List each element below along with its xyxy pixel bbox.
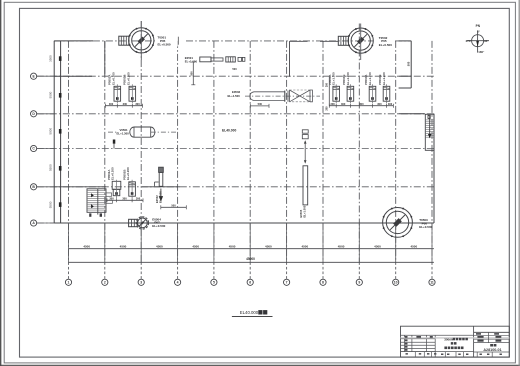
row D bubble leader	[37, 113, 54, 115]
svg-text:E0505: E0505	[299, 209, 303, 217]
northeast annex east wall	[410, 41, 412, 88]
svg-text:500: 500	[258, 102, 263, 106]
row A bubble leader	[37, 222, 54, 224]
west wall inner face	[60, 41, 62, 223]
grid column 5 bubble leader	[213, 262, 215, 279]
dimension extension line	[140, 223, 142, 262]
row D wall right segment	[399, 113, 425, 115]
svg-text:EL+1.300: EL+1.300	[117, 132, 130, 136]
svg-text:EL+1.200: EL+1.200	[382, 72, 386, 85]
dimension extension line	[249, 223, 251, 262]
staircase right (axis 11 / rows D-C)	[425, 114, 434, 150]
mid pump pair dimension line	[107, 199, 143, 201]
north equipment axis line (left)	[54, 40, 155, 42]
E0502 dimension line	[161, 206, 187, 208]
column 2 wall segment	[104, 41, 106, 76]
svg-text:5500: 5500	[49, 201, 53, 208]
conveyor E0501	[200, 57, 211, 62]
fan T0503 (axis 10 / row A)	[383, 208, 413, 238]
svg-text:EL40.000: EL40.000	[222, 129, 236, 133]
axis bubble E	[30, 73, 36, 79]
svg-text:PN: PN	[476, 24, 481, 28]
fan T0502 vertical centerline	[360, 24, 362, 61]
equipment E0502	[159, 167, 164, 172]
fan T0501 label underlay	[156, 35, 178, 46]
svg-text:7: 7	[286, 281, 288, 285]
svg-text:8: 8	[322, 281, 324, 285]
svg-text:EL+0.500: EL+0.500	[152, 224, 165, 228]
grid column 4 centerline	[177, 41, 179, 262]
grid row B centerline	[37, 186, 434, 188]
svg-text:EL+1.200: EL+1.200	[332, 72, 336, 85]
structural column on west wall	[59, 93, 62, 98]
row B wall left segment	[54, 186, 106, 188]
axis bubble 6	[247, 279, 253, 285]
grid column 8 bubble leader	[322, 262, 324, 279]
svg-text:300: 300	[359, 102, 364, 106]
north equipment axis line (right)	[395, 40, 411, 42]
E0503 centerline	[245, 95, 320, 97]
row E wall right segment	[399, 75, 412, 77]
svg-text:EL+0.200: EL+0.200	[126, 167, 130, 180]
pump pair dimension line	[105, 105, 142, 107]
grid column 10 bubble leader	[395, 262, 397, 279]
svg-text:E0502: E0502	[155, 195, 159, 203]
svg-text:EL+0.500: EL+0.500	[158, 43, 171, 47]
svg-text:3500: 3500	[49, 55, 53, 62]
grid column 6 bubble leader	[249, 262, 251, 279]
svg-text:3: 3	[140, 281, 142, 285]
axis bubble 9	[356, 279, 362, 285]
west wall outer face	[53, 41, 55, 223]
north wall right segment	[399, 40, 412, 42]
svg-text:5500: 5500	[49, 164, 53, 171]
V0501 centerline right	[151, 131, 176, 133]
svg-text:300: 300	[123, 102, 128, 106]
axis bubble C	[30, 145, 36, 151]
svg-text:4500: 4500	[156, 245, 163, 249]
pump P0503A	[333, 86, 340, 101]
dimension extension line	[177, 223, 179, 262]
axis bubble B	[30, 184, 36, 190]
svg-text:200: 200	[326, 82, 329, 87]
east wall	[433, 114, 435, 223]
pump P0503B	[347, 86, 354, 101]
tick on north axis	[177, 37, 179, 45]
svg-text:9: 9	[358, 281, 360, 285]
north equipment axis line (middle)	[186, 40, 373, 42]
grid row D centerline	[37, 113, 434, 115]
dimension extension line	[104, 223, 106, 262]
svg-text:500: 500	[407, 61, 411, 66]
svg-text:4500: 4500	[192, 245, 199, 249]
svg-text:EL+1.000: EL+1.000	[185, 59, 198, 63]
pump room west wall at axis 7	[289, 41, 291, 77]
structural column on west wall	[59, 166, 62, 171]
svg-text:300: 300	[388, 102, 393, 106]
svg-text:EL40.000: EL40.000	[240, 310, 259, 315]
grid column 11 centerline	[431, 41, 433, 262]
svg-text:300: 300	[377, 102, 382, 106]
grid column 1 bubble leader	[68, 262, 70, 279]
left stair landing notch upper	[106, 193, 112, 196]
right pump group extension line	[328, 76, 330, 106]
V0501 centerline left	[108, 131, 118, 133]
fan T0502 label underlay	[377, 36, 394, 47]
pump P0501B	[129, 182, 136, 196]
pump P0501A	[112, 181, 121, 189]
dimension extension line	[395, 223, 397, 262]
svg-text:300: 300	[109, 197, 114, 201]
svg-text:45000: 45000	[246, 257, 255, 261]
grid column 6 centerline	[249, 41, 251, 262]
axis bubble 4	[175, 279, 181, 285]
equipment E0503	[250, 92, 285, 101]
duct E0505	[302, 130, 308, 133]
svg-text:4500: 4500	[338, 245, 345, 249]
svg-text:2: 2	[104, 281, 106, 285]
axis bubble 3	[138, 279, 144, 285]
fan T0501 vertical centerline	[140, 21, 142, 60]
svg-text:5000: 5000	[49, 128, 53, 135]
axis bubble 7	[284, 279, 290, 285]
row B bubble leader	[37, 186, 54, 188]
E0501 vertical dimension	[192, 62, 194, 85]
svg-text:300: 300	[109, 102, 114, 106]
svg-text:EL+0.200: EL+0.200	[111, 72, 115, 85]
svg-text:5500: 5500	[49, 91, 53, 98]
svg-text:200: 200	[326, 106, 329, 111]
grid column 11 bubble leader	[431, 262, 433, 279]
svg-text:EL+1.000: EL+1.000	[303, 205, 307, 217]
svg-text:4500: 4500	[265, 245, 272, 249]
svg-text:4500: 4500	[374, 245, 381, 249]
dimension extension line	[431, 223, 433, 262]
structural column on west wall	[59, 129, 62, 134]
svg-text:5: 5	[213, 281, 215, 285]
grid column 4 bubble leader	[177, 262, 179, 279]
dimension extension line	[322, 223, 324, 262]
svg-text:300: 300	[135, 102, 140, 106]
grid column 2 centerline	[104, 41, 106, 262]
bottom dimension line 1	[69, 248, 434, 250]
pump room north wall segment 2	[320, 40, 338, 42]
sheet bottom edge artifact	[0, 364, 520, 366]
row B wall middle segment	[142, 186, 180, 188]
grid column 3 bubble leader	[140, 262, 142, 279]
grid column 1 centerline	[68, 41, 70, 262]
title block	[401, 326, 510, 357]
svg-text:4500: 4500	[120, 245, 127, 249]
grid column 7 centerline	[286, 41, 288, 262]
fan T0502 (axis 9 / north axis)	[348, 28, 373, 53]
svg-text:500: 500	[171, 204, 176, 208]
svg-text:EL+0.500: EL+0.500	[419, 225, 432, 229]
dimension extension line	[358, 223, 360, 262]
grid column 9 bubble leader	[358, 262, 360, 279]
title block main divider	[473, 326, 475, 357]
axis bubble D	[30, 111, 36, 117]
svg-text:300: 300	[122, 197, 127, 201]
svg-text:500: 500	[189, 71, 193, 76]
svg-text:EL+1.000: EL+1.000	[158, 191, 162, 203]
svg-text:EL+1.200: EL+1.200	[368, 72, 372, 85]
fan E0504 (axis 3 / row A)	[136, 217, 148, 229]
staircase left (axes 1-2 / rows B-A)	[87, 189, 106, 213]
svg-text:270°: 270°	[466, 39, 473, 43]
sheet left edge artifact	[0, 0, 2, 366]
sheet right edge artifact	[518, 0, 520, 366]
svg-text:4500: 4500	[301, 245, 308, 249]
svg-text:EL+0.200: EL+0.200	[111, 167, 115, 180]
svg-text:4500: 4500	[410, 245, 417, 249]
right pump group dimension line	[329, 105, 393, 107]
axis bubble 1	[65, 279, 71, 285]
svg-text:EL+0.200: EL+0.200	[126, 72, 130, 85]
axis bubble 2	[102, 279, 108, 285]
title block right rows	[474, 331, 510, 333]
structural column on west wall	[59, 56, 62, 61]
grid row E centerline	[37, 75, 434, 77]
dimension extension line	[68, 223, 70, 262]
structural column on west wall	[59, 202, 62, 207]
pump P0502A	[114, 86, 121, 101]
svg-text:1: 1	[68, 281, 70, 285]
pump P0504A	[369, 86, 376, 101]
svg-text:500: 500	[232, 67, 237, 71]
pump room north wall segment 1	[290, 40, 308, 42]
svg-text:300: 300	[136, 197, 141, 201]
grid row A centerline	[37, 222, 434, 224]
svg-text:180°: 180°	[478, 50, 485, 54]
E0503 dimension line	[250, 105, 269, 107]
duct E0505 body	[303, 166, 308, 205]
north wall left segment	[54, 40, 93, 42]
row E wall left segment	[54, 75, 92, 77]
svg-text:4: 4	[177, 281, 179, 285]
northeast annex south wall	[399, 87, 412, 89]
grid column 2 bubble leader	[104, 262, 106, 279]
left stair landing notch lower	[106, 200, 112, 203]
pump P0502B	[129, 86, 136, 101]
grid row C centerline	[37, 148, 434, 150]
svg-text:4500: 4500	[83, 245, 90, 249]
vessel V0501	[130, 127, 155, 137]
column mark near V0501	[113, 140, 116, 144]
svg-text:4500: 4500	[229, 245, 236, 249]
svg-text:11: 11	[430, 281, 434, 285]
row C bubble leader	[37, 148, 54, 150]
axis bubble 8	[320, 279, 326, 285]
axis bubble A	[30, 220, 36, 226]
north arrow (plant north)	[472, 35, 484, 47]
grid column 5 centerline	[213, 41, 215, 262]
svg-text:300: 300	[330, 102, 335, 106]
svg-text:10: 10	[394, 281, 398, 285]
svg-text:EL+1.500: EL+1.500	[228, 94, 241, 98]
svg-text:300t/h: 300t/h	[444, 338, 453, 342]
svg-text:300: 300	[341, 102, 346, 106]
title block gray band	[401, 337, 510, 339]
svg-text:A28100-01: A28100-01	[483, 348, 501, 352]
bottom dimension line 2	[69, 261, 434, 263]
row E bubble leader	[37, 75, 54, 77]
pump P0504B	[383, 86, 390, 101]
grid column 7 bubble leader	[286, 262, 288, 279]
grid column 10 centerline	[395, 41, 397, 262]
grid column 8 centerline	[322, 41, 324, 262]
grid column 3 centerline	[140, 21, 142, 262]
south wall along row A	[54, 222, 434, 224]
svg-text:EL+0.500: EL+0.500	[379, 43, 392, 47]
axis bubble 5	[211, 279, 217, 285]
dimension extension line	[286, 223, 288, 262]
svg-text:EL+1.200: EL+1.200	[346, 72, 350, 85]
fan T0501 (axis 3 / north axis)	[129, 28, 154, 53]
svg-text:6: 6	[249, 281, 251, 285]
grid column 9 centerline	[358, 24, 360, 263]
dimension extension line	[213, 223, 215, 262]
axis bubble 10	[393, 279, 399, 285]
axis bubble 11	[429, 279, 435, 285]
